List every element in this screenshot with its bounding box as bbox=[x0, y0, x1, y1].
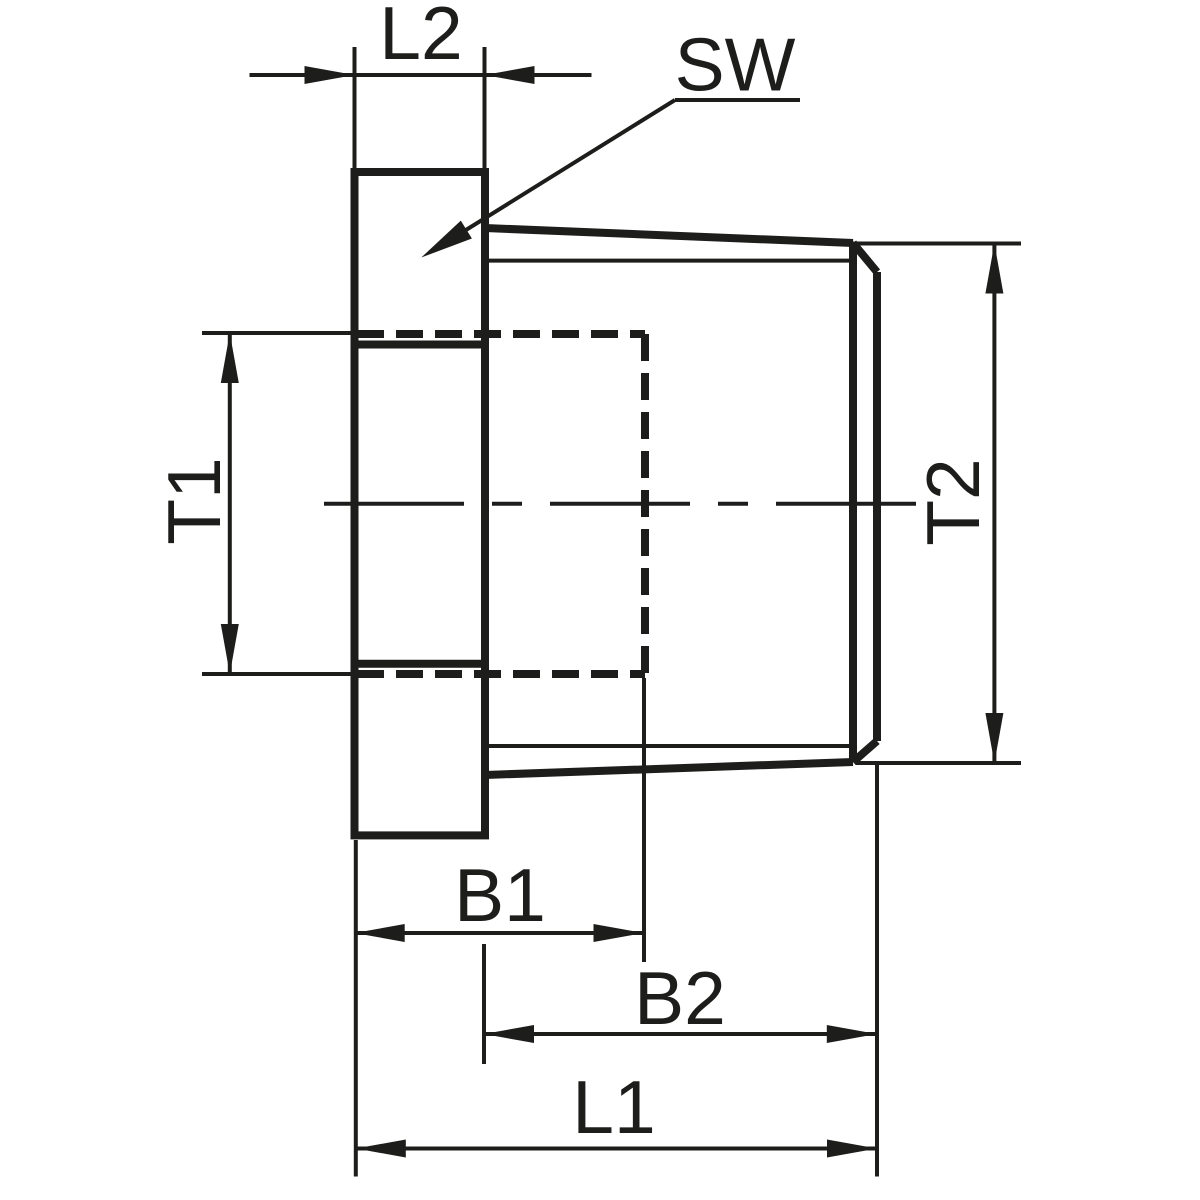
svg-text:L1: L1 bbox=[572, 1065, 655, 1149]
svg-text:T2: T2 bbox=[911, 458, 995, 546]
svg-text:SW: SW bbox=[675, 23, 796, 107]
svg-text:B2: B2 bbox=[634, 956, 726, 1040]
svg-text:T1: T1 bbox=[152, 457, 236, 545]
svg-text:L2: L2 bbox=[379, 0, 462, 75]
svg-text:B1: B1 bbox=[454, 853, 546, 937]
